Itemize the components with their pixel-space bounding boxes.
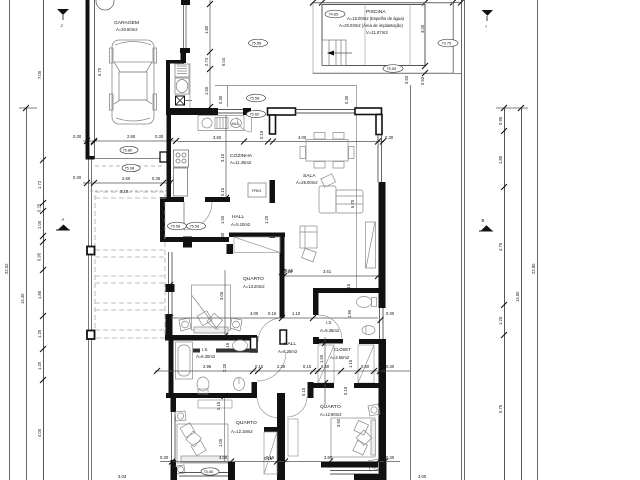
garage right window: [183, 5, 185, 48]
sala bottom dim: [284, 275, 378, 277]
pool inner line 2: [409, 5, 411, 66]
svg-text:A=5.10m2: A=5.10m2: [231, 222, 251, 227]
quarto1 west window: [168, 252, 173, 314]
quarto1 north wall: [160, 237, 229, 242]
nightstand q3 top: [175, 411, 186, 421]
level (74.65): [325, 10, 345, 18]
porch west wall: [160, 197, 165, 241]
kitchen vertical dim x226: [225, 115, 227, 198]
SE corner bottom wall: [354, 474, 386, 480]
svg-text:A: A: [62, 217, 65, 222]
quarto3 bed: [177, 423, 228, 463]
pool arrow: [333, 52, 352, 54]
armchair: [300, 226, 317, 262]
kitchen north wall: [166, 108, 218, 115]
svg-text:3.61: 3.61: [323, 269, 332, 274]
left dim chain ticks: [40, 157, 46, 163]
garage dim line y141: [83, 140, 178, 142]
right chain top tail: [496, 107, 528, 109]
IS535 west pillar lower: [313, 337, 319, 344]
svg-text:6.70: 6.70: [97, 67, 102, 76]
svg-text:75.80: 75.80: [123, 148, 134, 153]
svg-text:73.75: 73.75: [442, 41, 452, 46]
level (75.60) kitchen door: [247, 110, 266, 117]
pool water rect: [322, 5, 425, 66]
garage right wall pillar top: [181, 0, 190, 5]
pillar at window end: [243, 108, 251, 115]
svg-text:0.15: 0.15: [303, 364, 312, 369]
middle dim line y371: [155, 370, 410, 372]
svg-text:0.35: 0.35: [152, 176, 161, 181]
svg-text:75.60: 75.60: [250, 112, 261, 117]
closet box right: [358, 345, 374, 383]
q2 south windows: [330, 470, 378, 472]
east IS window: [379, 308, 381, 339]
svg-text:0.50: 0.50: [420, 76, 425, 85]
nightstand q2 top: [368, 404, 380, 416]
laundry inner face: [189, 63, 191, 108]
svg-text:2.26: 2.26: [277, 364, 286, 369]
svg-text:0.30: 0.30: [160, 455, 169, 460]
svg-text:1.80: 1.80: [37, 290, 42, 299]
bathroom counter: [193, 349, 200, 353]
svg-text:0.30: 0.30: [344, 95, 349, 104]
svg-text:75.58: 75.58: [190, 224, 200, 229]
left dimension chain line: [43, 0, 45, 480]
svg-text:4.00: 4.00: [298, 135, 307, 140]
svg-text:A=12.90m2: A=12.90m2: [320, 412, 342, 417]
svg-text:0.74: 0.74: [204, 57, 209, 66]
svg-text:74.65: 74.65: [329, 12, 339, 17]
svg-text:22.52: 22.52: [4, 263, 9, 274]
pool deck right edge: [453, 3, 455, 73]
svg-text:75.80: 75.80: [204, 469, 215, 474]
nightstand left: [179, 318, 191, 331]
entry south wall east seg: [205, 197, 230, 202]
pool inner line 1: [364, 5, 366, 66]
svg-text:0.30: 0.30: [386, 364, 395, 369]
IS535 north wall: [313, 288, 380, 293]
level (75.58) mid: [247, 94, 266, 102]
level (75.58) upper: [249, 39, 268, 47]
quarto1 bed: [192, 285, 231, 333]
washer dryer: [175, 64, 189, 94]
quarto1 inner vert dim: [224, 270, 226, 336]
garage right wall pillar bottom: [180, 48, 190, 53]
IS west wall: [169, 340, 174, 398]
kitchen dim line y141: [178, 141, 384, 143]
svg-text:4.00: 4.00: [250, 311, 259, 316]
svg-text:1.15: 1.15: [348, 359, 353, 368]
garage left wall: [86, 0, 90, 156]
svg-text:3.05: 3.05: [219, 291, 224, 300]
svg-text:0.30: 0.30: [73, 175, 82, 180]
top vertical dim x210: [209, 0, 211, 108]
hall south pillar: [308, 382, 314, 398]
kitchen counter top: [198, 116, 244, 131]
svg-text:A=11.45m2: A=11.45m2: [230, 160, 252, 165]
quarto1 east wall: [280, 236, 285, 318]
svg-text:14.40: 14.40: [20, 293, 25, 304]
porch level markers: [168, 222, 187, 230]
fridge: [248, 183, 266, 197]
quarto1 door arc: [258, 318, 282, 342]
svg-text:A=5.35m2: A=5.35m2: [320, 328, 340, 333]
IS630 east wall bottom: [252, 382, 258, 398]
IS535 door arc: [319, 315, 342, 338]
svg-text:QUARTO: QUARTO: [236, 420, 257, 426]
svg-text:QUARTO: QUARTO: [320, 404, 341, 410]
pool deck outline: [313, 3, 453, 73]
svg-text:3.10: 3.10: [220, 153, 225, 162]
svg-text:A=13.20m2: A=13.20m2: [243, 284, 265, 289]
svg-text:0.30: 0.30: [220, 232, 225, 241]
terrace step line y85: [215, 85, 356, 87]
svg-text:0.50: 0.50: [404, 75, 409, 84]
svg-text:1.80: 1.80: [204, 25, 209, 34]
svg-text:3.03: 3.03: [118, 474, 127, 479]
bathtub: [176, 342, 193, 379]
svg-text:GARAGEM: GARAGEM: [114, 20, 139, 26]
svg-text:3.00: 3.00: [420, 24, 425, 33]
svg-text:3.10: 3.10: [120, 189, 129, 194]
stove: [174, 150, 189, 196]
svg-text:0.95: 0.95: [37, 252, 42, 261]
datum circle top: [96, 0, 114, 10]
svg-text:PISCINA: PISCINA: [366, 9, 386, 15]
svg-text:7.00: 7.00: [37, 70, 42, 79]
svg-text:1.00: 1.00: [37, 220, 42, 229]
nightstand q3 bottom: [176, 465, 185, 474]
svg-text:A=12.18m2: A=12.18m2: [231, 429, 253, 434]
front door arc: [184, 202, 212, 230]
svg-text:A=6.30m2: A=6.30m2: [196, 354, 216, 359]
site boundary right double: [461, 0, 463, 480]
svg-text:0.60: 0.60: [361, 364, 370, 369]
laundry top wall: [166, 60, 184, 64]
svg-text:B: B: [482, 218, 485, 223]
svg-text:1.20: 1.20: [498, 316, 503, 325]
svg-text:COZINHA: COZINHA: [230, 153, 253, 159]
NE corner pier: [355, 108, 382, 135]
svg-text:A=26.00m2: A=26.00m2: [296, 180, 318, 185]
quarto3 west wall: [171, 398, 177, 478]
right dim chain ticks: [501, 105, 507, 111]
svg-text:0.15: 0.15: [220, 187, 225, 196]
svg-text:1.20: 1.20: [264, 215, 269, 224]
bidet IS630: [234, 378, 245, 391]
svg-text:1.80: 1.80: [498, 155, 503, 164]
quarto1 south wall: [165, 335, 257, 341]
svg-text:J: J: [61, 23, 63, 28]
svg-text:1.10: 1.10: [292, 311, 301, 316]
svg-text:0.30: 0.30: [386, 311, 395, 316]
quarto1 closet: [234, 237, 280, 253]
closet south wall right: [354, 383, 380, 388]
IS630 south wall: [166, 393, 257, 398]
right terrace line: [410, 85, 412, 480]
kitchen west wall: [167, 110, 172, 198]
site line left 2: [26, 108, 28, 480]
closet north wall right: [359, 339, 381, 344]
hall east wall: [270, 180, 276, 203]
entry south wall west seg: [160, 197, 184, 202]
sofa: [319, 174, 363, 213]
svg-text:0.15: 0.15: [343, 386, 348, 395]
right dimension chain: [504, 108, 506, 480]
q3 SE pillar: [228, 462, 235, 480]
svg-text:1.20: 1.20: [37, 361, 42, 370]
east sala window: [377, 135, 379, 183]
level (73.75): [438, 39, 458, 47]
kitchen bottom wall: [166, 197, 184, 202]
garage left wall foot: [86, 156, 95, 160]
svg-text:75.55: 75.55: [387, 66, 397, 71]
svg-text:0.95: 0.95: [498, 116, 503, 125]
svg-text:75.98: 75.98: [125, 166, 135, 171]
terrace edge line y73: [313, 73, 461, 75]
svg-text:V=21.87m3: V=21.87m3: [366, 30, 388, 35]
svg-text:4.75: 4.75: [498, 242, 503, 251]
svg-text:3.60: 3.60: [336, 418, 341, 427]
pool steps: [322, 40, 346, 66]
svg-text:A=20.03m2 (Área de implantaçã: A=20.03m2 (Área de implantação): [339, 23, 404, 28]
svg-text:0.30: 0.30: [386, 455, 395, 460]
pool top dim line: [312, 2, 461, 4]
svg-text:14.50: 14.50: [515, 291, 520, 302]
pergola post bottom: [87, 331, 95, 340]
closet rail black bar: [318, 339, 343, 344]
closet south wall left: [313, 383, 334, 388]
svg-text:0.30: 0.30: [218, 95, 223, 104]
svg-text:0.15: 0.15: [301, 387, 306, 396]
svg-text:75.58: 75.58: [252, 41, 262, 46]
quarto2 closet small: [288, 419, 298, 456]
svg-text:3.00: 3.00: [418, 474, 427, 479]
driveway dashed line: [95, 165, 162, 167]
closet vert dim x325: [324, 337, 326, 405]
quarto2 bed: [331, 418, 376, 457]
pool right dim: [422, 63, 428, 69]
svg-text:75.58: 75.58: [250, 96, 260, 101]
svg-text:FRIG: FRIG: [252, 188, 261, 193]
T pier: [268, 108, 296, 134]
svg-text:5.75: 5.75: [498, 404, 503, 413]
section marker I: [482, 10, 494, 29]
east wall sala: [379, 182, 386, 308]
svg-text:A=6.25m2: A=6.25m2: [278, 349, 298, 354]
sala north window: [296, 109, 356, 111]
dining table: [300, 133, 354, 169]
toilet IS535: [357, 297, 377, 308]
svg-text:CLOSET: CLOSET: [334, 347, 351, 352]
quarto3 door arc: [258, 398, 278, 418]
svg-text:2.80: 2.80: [127, 134, 136, 139]
level (75.55): [383, 65, 403, 73]
west wall q1 lower: [166, 314, 173, 340]
svg-text:1.50: 1.50: [204, 86, 209, 95]
svg-text:0.25: 0.25: [37, 203, 42, 212]
svg-text:1.50: 1.50: [220, 215, 225, 224]
svg-text:0.30: 0.30: [155, 134, 164, 139]
svg-text:0.60: 0.60: [321, 364, 330, 369]
svg-text:4.00: 4.00: [219, 455, 228, 460]
quarto3 dresser: [198, 400, 232, 408]
svg-text:22.80: 22.80: [531, 263, 536, 274]
svg-text:75.58: 75.58: [171, 224, 181, 229]
garage inner face line: [94, 0, 96, 158]
q3 south windows: [179, 472, 228, 474]
tv bench: [366, 222, 376, 268]
svg-text:5.04: 5.04: [221, 57, 226, 66]
svg-text:SALA: SALA: [303, 173, 316, 179]
svg-text:0.15: 0.15: [285, 268, 294, 273]
quarto2 door arc: [287, 397, 307, 417]
left chain labels: [4, 67, 102, 437]
svg-text:4.00: 4.00: [37, 428, 42, 437]
closet box left: [318, 345, 334, 383]
svg-text:QUARTO: QUARTO: [243, 276, 264, 282]
svg-text:A=3.50m2: A=3.50m2: [330, 355, 350, 360]
svg-text:0.15: 0.15: [266, 455, 275, 460]
quarto2 south wall: [321, 462, 378, 468]
svg-text:0.15: 0.15: [216, 401, 221, 410]
IS535 west wall upper: [313, 288, 319, 315]
nightstand right: [230, 318, 242, 331]
entry dim line y183: [83, 182, 172, 184]
svg-text:0.30: 0.30: [385, 135, 394, 140]
svg-text:I.S.: I.S.: [202, 347, 208, 352]
bidet IS535: [362, 326, 375, 335]
wc IS630: [197, 377, 209, 394]
svg-text:0.15: 0.15: [259, 130, 264, 139]
svg-text:2.20: 2.20: [222, 363, 227, 372]
site boundary line left outer: [9, 0, 11, 480]
right chain 2: [521, 108, 523, 480]
terrace small vertical: [227, 85, 229, 107]
svg-text:2.95: 2.95: [203, 364, 212, 369]
pergola dashed dim y191: [90, 190, 170, 192]
quarto3 closet box: [264, 432, 277, 474]
svg-text:1.05: 1.05: [218, 438, 223, 447]
entry pillar: [183, 237, 192, 248]
washbasin oval: [233, 340, 248, 351]
svg-text:A=15.00m2 (Espelho de água): A=15.00m2 (Espelho de água): [347, 16, 405, 21]
section marker J: [57, 9, 69, 28]
pergola edge double line left: [88, 156, 90, 480]
svg-text:0.15: 0.15: [255, 364, 264, 369]
kitchen north window: [218, 109, 243, 111]
laundry west wall: [166, 60, 170, 110]
svg-text:0.30: 0.30: [73, 134, 82, 139]
IS630 east wall pillar top: [251, 337, 258, 352]
garage slab edge: [90, 158, 170, 160]
section marker A: [56, 217, 70, 230]
svg-text:3.60: 3.60: [213, 135, 222, 140]
corridor dim line y318: [170, 317, 378, 319]
kitchen door arc: [237, 117, 252, 132]
svg-text:6.70: 6.70: [350, 199, 355, 208]
nightstand q2 bottom: [368, 459, 380, 471]
q2 SE pillar: [379, 462, 387, 480]
car: [110, 40, 157, 124]
west pilaster kitchen: [160, 152, 167, 162]
svg-text:1.95: 1.95: [347, 309, 352, 318]
quarto2 divider wall: [277, 393, 285, 480]
svg-text:HALL: HALL: [232, 214, 245, 220]
level (75.80) bottom: [201, 468, 219, 475]
svg-text:HALL: HALL: [284, 341, 297, 347]
left chain top tail: [19, 107, 37, 109]
corridor pillar: [280, 330, 287, 344]
svg-text:3.80: 3.80: [324, 455, 333, 460]
svg-text:0.15: 0.15: [268, 311, 277, 316]
site line right outer: [537, 0, 539, 480]
IS630 door arc: [257, 352, 286, 381]
svg-text:1.50: 1.50: [319, 354, 324, 363]
terrace east edge: [356, 85, 358, 288]
svg-text:MLL: MLL: [232, 121, 240, 126]
east wall south part: [379, 339, 387, 480]
water heater hatched: [176, 96, 193, 105]
west pilaster q1: [166, 284, 175, 292]
section marker B: [479, 218, 493, 231]
svg-text:I: I: [486, 24, 487, 29]
quarto3 closet stub wall: [264, 427, 277, 432]
svg-text:1.72: 1.72: [37, 180, 42, 189]
svg-text:2.60: 2.60: [122, 176, 131, 181]
svg-text:1.25: 1.25: [37, 329, 42, 338]
quarto3 south wall pillar left: [171, 467, 178, 480]
svg-text:A=20.60m2: A=20.60m2: [116, 27, 138, 32]
bottom dim line y462: [160, 461, 400, 463]
svg-text:I.S.: I.S.: [326, 320, 332, 325]
pergola post top: [87, 247, 95, 255]
quarto3 west window: [170, 412, 178, 460]
level (75.98) entry: [122, 164, 140, 171]
svg-text:0.15: 0.15: [346, 283, 351, 292]
level (75.80) garage: [120, 146, 138, 153]
